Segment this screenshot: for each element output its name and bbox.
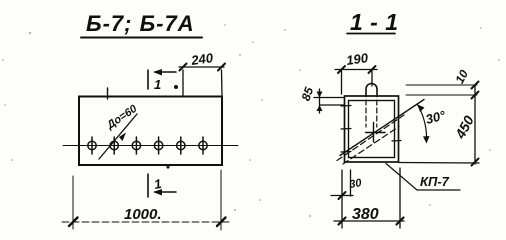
label 450: [451, 113, 477, 142]
label 380: [352, 206, 379, 223]
label 1000.: [124, 206, 162, 223]
label 85: [299, 85, 317, 102]
hole 6: [199, 137, 207, 154]
channel section inner outline: [349, 101, 395, 158]
dimension 450: [472, 95, 479, 166]
center mark cross: [366, 123, 386, 143]
svg-text:30: 30: [348, 177, 363, 191]
svg-text:190: 190: [345, 50, 369, 68]
diagonal anchor bar (dashed): [337, 115, 404, 161]
tick right edge: [392, 140, 401, 143]
svg-text:КП-7: КП-7: [420, 174, 450, 189]
svg-text:1: 1: [153, 176, 163, 192]
dimension 85: [314, 89, 344, 113]
plate outline Б-7: [79, 97, 222, 166]
label 10: [452, 67, 471, 86]
dimension 380: [334, 168, 404, 228]
extension line tab top to right: [406, 84, 477, 86]
tick left edge c: [341, 151, 351, 154]
label До=60: [104, 102, 140, 132]
angle arc 30 deg: [418, 105, 430, 144]
label 30: [348, 177, 363, 191]
label 240: [189, 50, 214, 68]
title Б-7; Б-7А: [86, 11, 195, 36]
title 1 - 1: [350, 9, 399, 35]
svg-text:380: 380: [352, 206, 379, 223]
dimension 1000: [62, 170, 232, 230]
dimension 190: [335, 66, 377, 94]
svg-text:240: 240: [189, 50, 214, 68]
section mark 1 (top): [148, 69, 176, 89]
horizontal centerline through holes: [63, 145, 238, 147]
diagonal anchor bar 2 (dashed): [343, 127, 399, 165]
hole 4: [154, 137, 162, 154]
dimension 240: [179, 64, 225, 96]
svg-text:1 - 1: 1 - 1: [350, 9, 399, 35]
tick left edge a: [341, 105, 351, 108]
svg-text:85: 85: [299, 85, 317, 102]
leader КП-7: [386, 164, 460, 191]
dimension 30 (bottom left of section): [331, 170, 353, 228]
svg-text:1000.: 1000.: [124, 206, 162, 223]
svg-text:1: 1: [154, 77, 161, 92]
tick on plate top edge: [107, 88, 109, 99]
label 190: [345, 50, 369, 68]
hole 1: [88, 137, 96, 154]
hole 3: [132, 137, 140, 154]
svg-text:30°: 30°: [424, 107, 447, 127]
label 1 (bottom section mark): [153, 176, 163, 192]
svg-text:10: 10: [452, 67, 471, 86]
label 1 (top section mark): [154, 77, 178, 92]
scan speckles: [2, 24, 500, 217]
label 30deg: [424, 107, 447, 127]
svg-text:Б-7; Б-7А: Б-7; Б-7А: [86, 11, 195, 36]
hole 5: [177, 137, 185, 154]
extension line box top to right: [406, 94, 477, 96]
label КП-7: [420, 174, 450, 189]
title underline: [81, 37, 202, 39]
extension line box bottom to right: [399, 162, 479, 165]
channel section outer outline: [345, 96, 399, 162]
hidden tab legs (dashed): [366, 100, 377, 127]
svg-text:450: 450: [451, 113, 477, 142]
diagonal anchor line (solid, 30 deg leg): [340, 100, 424, 156]
leader line for hole diameter: [99, 114, 137, 159]
title underline (1-1): [347, 33, 395, 35]
hole 2: [110, 137, 118, 154]
anchor tab on top: [366, 84, 377, 97]
dimension 10: [472, 82, 479, 99]
tick left edge b: [341, 128, 351, 131]
section mark 1 (bottom): [148, 174, 176, 197]
